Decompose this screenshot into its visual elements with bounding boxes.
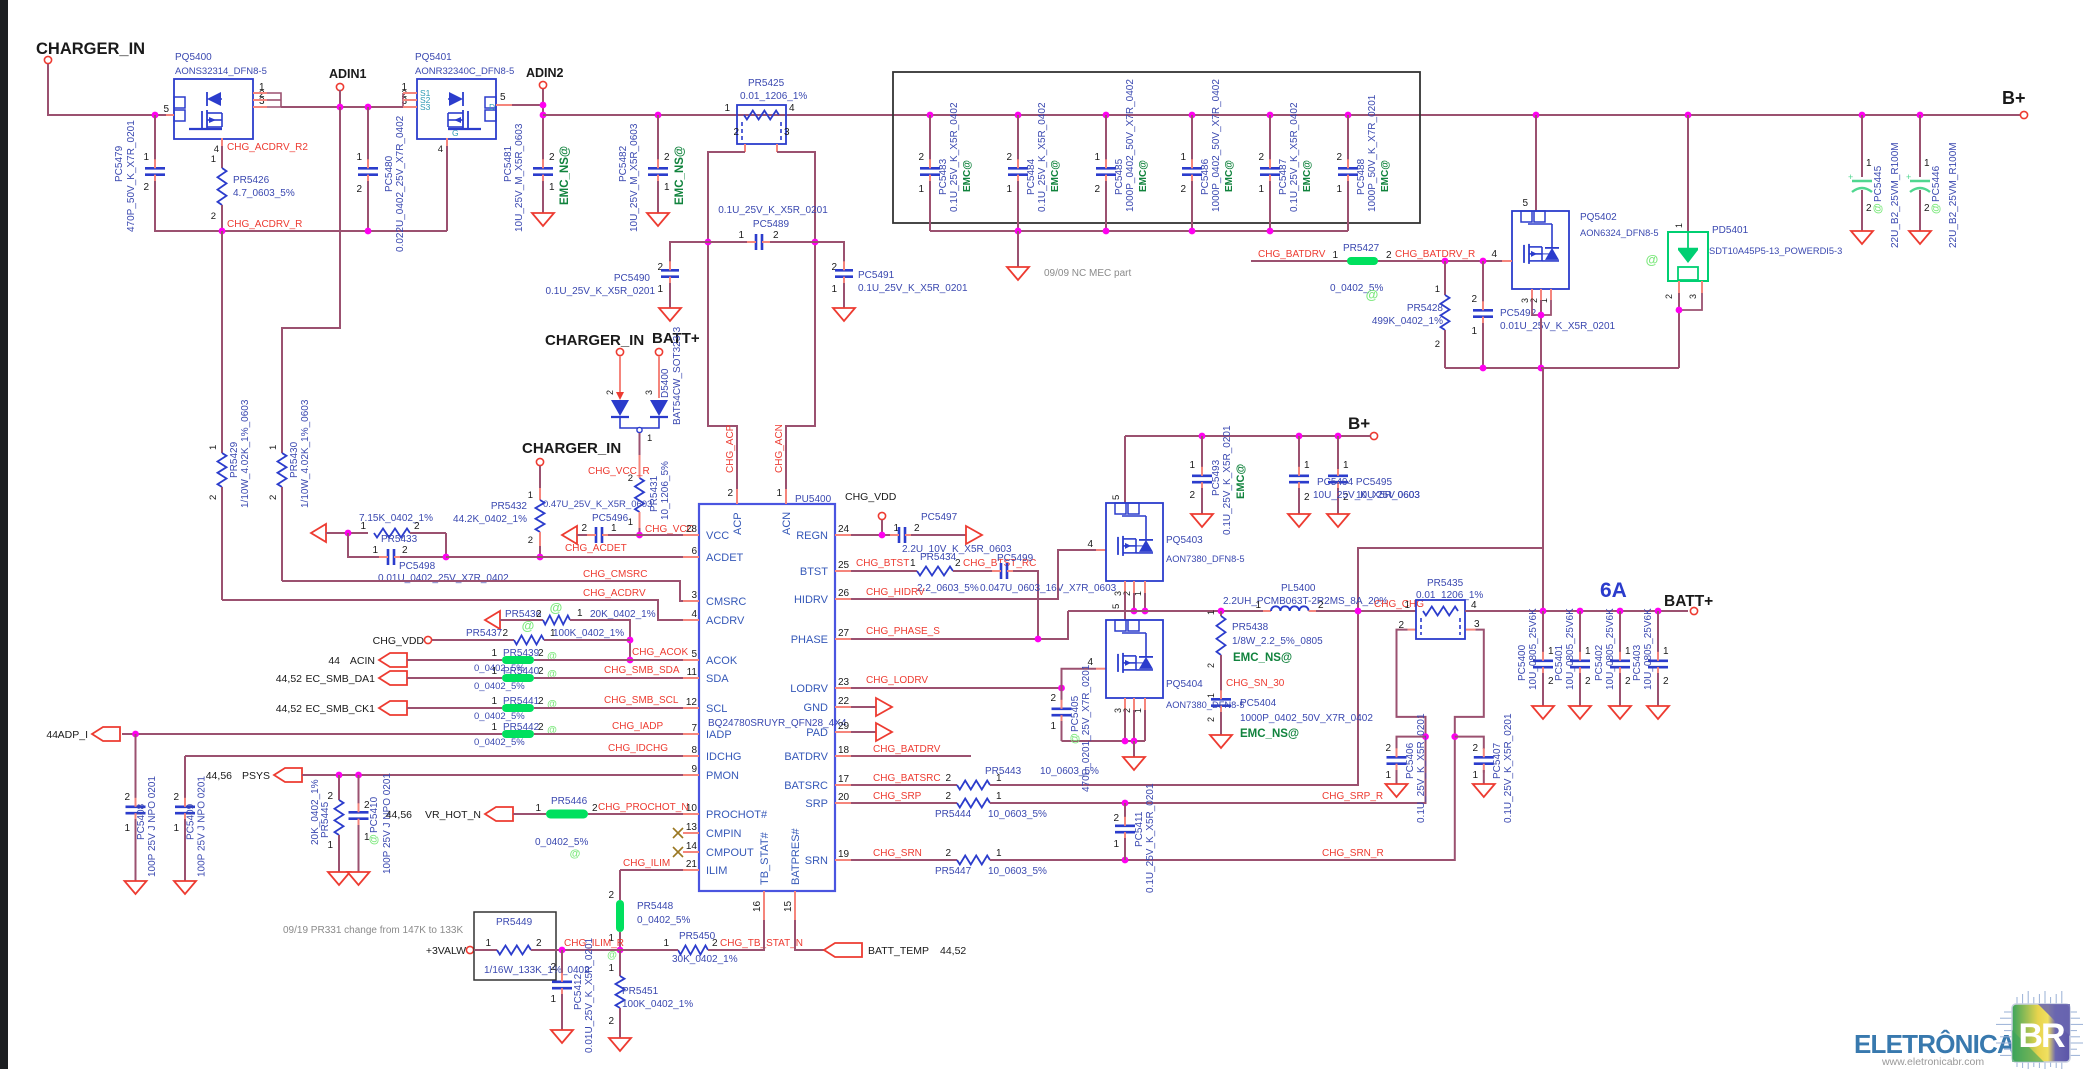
svg-text:EC_SMB_DA1: EC_SMB_DA1 (306, 673, 376, 685)
svg-text:ACP: ACP (732, 512, 744, 535)
svg-text:2: 2 (1122, 708, 1132, 713)
svg-text:1: 1 (1180, 152, 1186, 163)
svg-text:26: 26 (838, 588, 850, 599)
svg-text:0.01_1206_1%: 0.01_1206_1% (740, 91, 807, 102)
svg-text:2: 2 (549, 152, 555, 163)
svg-text:CHG_BATDRV: CHG_BATDRV (1258, 249, 1326, 260)
svg-text:1: 1 (1206, 610, 1216, 615)
svg-text:1: 1 (1206, 693, 1216, 698)
svg-text:44: 44 (328, 655, 340, 667)
svg-text:3: 3 (644, 390, 654, 395)
svg-text:PAD: PAD (806, 727, 828, 739)
svg-text:2: 2 (1398, 620, 1404, 631)
capacitor PC5495 with ground (1335, 433, 1342, 440)
svg-text:PR5425: PR5425 (748, 78, 785, 89)
svg-text:PC5404: PC5404 (1240, 698, 1277, 709)
svg-text:CHG_SRN_R: CHG_SRN_R (1322, 848, 1384, 859)
svg-text:2: 2 (955, 558, 961, 569)
svg-text:1: 1 (372, 545, 378, 556)
svg-text:24: 24 (838, 524, 850, 535)
svg-text:CHG_BATDRV_R: CHG_BATDRV_R (1395, 249, 1475, 260)
svg-text:1: 1 (1113, 839, 1119, 850)
svg-text:0.1U_25V_K_X5R_0201: 0.1U_25V_K_X5R_0201 (1416, 713, 1427, 823)
svg-text:PC5499: PC5499 (997, 553, 1034, 564)
svg-text:44,56: 44,56 (206, 770, 232, 782)
svg-text:ADIN2: ADIN2 (526, 66, 564, 80)
wire BATPRES# to BATT_TEMP (795, 920, 824, 950)
svg-text:30K_0402_1%: 30K_0402_1% (672, 954, 738, 965)
svg-text:BTST: BTST (800, 566, 828, 578)
wire D5400 common to PR5431 (639, 433, 641, 455)
svg-text:100P 25V J NPO 0201: 100P 25V J NPO 0201 (197, 776, 208, 877)
svg-text:2: 2 (550, 962, 556, 973)
svg-text:2: 2 (605, 390, 615, 395)
svg-text:PC5498: PC5498 (399, 561, 436, 572)
svg-text:PC5481: PC5481 (503, 145, 514, 182)
svg-text:1: 1 (663, 938, 669, 949)
svg-text:PR5428: PR5428 (1407, 303, 1444, 314)
svg-text:PC5482: PC5482 (618, 145, 629, 182)
svg-text:PC5485: PC5485 (1114, 158, 1125, 195)
diode D5400 BAT54CW dual (619, 356, 621, 398)
resistor PR5432 44.2K (539, 466, 541, 488)
svg-text:1000P_0402_50V_X7R_0402: 1000P_0402_50V_X7R_0402 (1211, 79, 1222, 212)
svg-text:11: 11 (687, 667, 698, 678)
svg-text:2: 2 (538, 666, 544, 677)
svg-text:EMC@: EMC@ (1380, 160, 1391, 192)
svg-text:1: 1 (1625, 646, 1631, 657)
svg-text:PR5446: PR5446 (551, 796, 588, 807)
svg-text:PC5409: PC5409 (186, 803, 197, 840)
svg-text:3: 3 (259, 96, 265, 107)
svg-text:100P 25V J NPO 0201: 100P 25V J NPO 0201 (382, 773, 393, 874)
svg-text:2: 2 (945, 848, 951, 859)
pin 3 CMSRC (683, 600, 699, 602)
svg-text:20: 20 (838, 792, 850, 803)
svg-text:PR5449: PR5449 (496, 917, 533, 928)
svg-text:S3: S3 (420, 102, 431, 112)
svg-text:1000P_0402_50V_X7R_0402: 1000P_0402_50V_X7R_0402 (1240, 713, 1373, 724)
svg-text:1: 1 (724, 103, 730, 114)
svg-text:PC5400: PC5400 (1517, 644, 1528, 681)
svg-text:PR5437: PR5437 (466, 628, 503, 639)
svg-text:0_0402_5%: 0_0402_5% (474, 711, 525, 722)
junction at PC5479 top (152, 112, 159, 119)
svg-text:CHG_VCC_R: CHG_VCC_R (588, 466, 650, 477)
svg-text:1: 1 (1336, 184, 1342, 195)
wire PR5425 pin3 down (CHG_ACN) (776, 144, 778, 152)
svg-text:1: 1 (1255, 600, 1261, 611)
svg-text:CHG_CMSRC: CHG_CMSRC (583, 569, 647, 580)
svg-text:0_0402_5%: 0_0402_5% (474, 681, 525, 692)
capacitor PC5402 output (1617, 608, 1624, 615)
svg-text:2: 2 (1094, 184, 1100, 195)
svg-text:7.15K_0402_1%: 7.15K_0402_1% (359, 513, 433, 524)
wire PR5429 from CHG_ACDRV_R bus (221, 231, 223, 453)
svg-text:@: @ (570, 848, 581, 860)
svg-text:PMON: PMON (706, 770, 739, 782)
pins 1,2,3 of PQ5404 to source bus (1124, 698, 1126, 710)
svg-text:BATT_TEMP: BATT_TEMP (868, 945, 929, 957)
svg-text:0.1U_25V_K_X5R_0201: 0.1U_25V_K_X5R_0201 (545, 286, 655, 297)
svg-text:1: 1 (1674, 223, 1684, 228)
capacitor PC5400 output (1540, 608, 1547, 615)
svg-text:AONR32340C_DFN8-5: AONR32340C_DFN8-5 (415, 66, 514, 77)
svg-text:CHG_IDCHG: CHG_IDCHG (608, 743, 668, 754)
svg-text:+: + (1906, 172, 1911, 182)
svg-text:0.1U_25V_K_X5R_0201: 0.1U_25V_K_X5R_0201 (718, 205, 828, 216)
svg-text:2: 2 (208, 495, 219, 500)
svg-text:1: 1 (1385, 770, 1391, 781)
svg-text:1: 1 (910, 558, 916, 569)
svg-text:2: 2 (1189, 490, 1195, 501)
svg-text:5: 5 (691, 649, 697, 660)
svg-text:ACOK: ACOK (706, 655, 738, 667)
svg-text:2: 2 (1122, 591, 1132, 596)
svg-text:EMC@: EMC@ (1302, 160, 1313, 192)
svg-text:4: 4 (1087, 539, 1093, 550)
svg-text:29: 29 (838, 721, 850, 732)
svg-text:D: D (489, 102, 495, 112)
svg-text:ADIN1: ADIN1 (329, 67, 367, 81)
svg-text:2: 2 (608, 1016, 614, 1027)
svg-text:22U_B2_25VM_R100M: 22U_B2_25VM_R100M (1948, 142, 1959, 248)
svg-text:2: 2 (664, 152, 670, 163)
svg-text:BATDRV: BATDRV (784, 751, 828, 763)
svg-text:SDA: SDA (706, 673, 729, 685)
svg-text:@: @ (550, 600, 563, 615)
wire CHARGER_IN to PQ5400 pin5 (48, 64, 166, 115)
svg-text:2: 2 (536, 938, 542, 949)
svg-text:CHG_BATDRV: CHG_BATDRV (873, 744, 941, 755)
svg-text:@: @ (522, 618, 535, 633)
svg-text:1000P_50V_K_X7R_0201: 1000P_50V_K_X7R_0201 (1367, 94, 1378, 212)
resistor PR5436 20K (485, 611, 500, 629)
svg-text:AON6324_DFN8-5: AON6324_DFN8-5 (1580, 228, 1659, 238)
svg-text:PR5445: PR5445 (320, 801, 331, 838)
svg-text:0_0402_5%: 0_0402_5% (474, 737, 525, 748)
svg-text:2: 2 (211, 211, 216, 222)
svg-text:PQ5401: PQ5401 (415, 52, 452, 63)
svg-text:PC5403: PC5403 (1632, 644, 1643, 681)
pins 1,2,3 of PQ5403 to phase rail (1124, 581, 1126, 593)
svg-text:LODRV: LODRV (790, 683, 828, 695)
svg-text:@: @ (1069, 733, 1081, 744)
svg-text:22U_B2_25VM_R100M: 22U_B2_25VM_R100M (1890, 142, 1901, 248)
svg-text:GND: GND (804, 702, 829, 714)
svg-text:2: 2 (1625, 676, 1631, 687)
svg-text:CHG_SRP_R: CHG_SRP_R (1322, 791, 1383, 802)
svg-text:1: 1 (1866, 158, 1872, 169)
svg-text:2: 2 (914, 523, 920, 534)
svg-text:1: 1 (535, 803, 541, 814)
svg-text:PC5406: PC5406 (1405, 742, 1416, 779)
pin 19 SRN (835, 859, 851, 861)
svg-text:ACDET: ACDET (706, 552, 744, 564)
svg-text:EMC@: EMC@ (1235, 464, 1247, 499)
svg-text:ACN: ACN (781, 512, 793, 535)
svg-text:1: 1 (776, 488, 782, 499)
svg-text:2: 2 (1471, 294, 1477, 305)
svg-text:PC5407: PC5407 (1492, 742, 1503, 779)
svg-text:2: 2 (1435, 339, 1440, 350)
svg-text:4: 4 (1491, 249, 1497, 260)
svg-text:27: 27 (838, 628, 850, 639)
svg-text:PC5401: PC5401 (1554, 644, 1565, 681)
svg-text:1: 1 (485, 938, 491, 949)
svg-text:2: 2 (712, 938, 718, 949)
capacitor PC5408 on ADP_I (132, 731, 139, 738)
svg-text:2.2U_10V_K_X5R_0603: 2.2U_10V_K_X5R_0603 (902, 544, 1012, 555)
svg-text:CHG_HIDRV: CHG_HIDRV (866, 587, 925, 598)
svg-text:5: 5 (500, 92, 506, 103)
svg-text:0.1U_25V_K_X5R_0402: 0.1U_25V_K_X5R_0402 (949, 102, 960, 212)
wire CHG_CHG node (1316, 610, 1416, 612)
svg-text:2: 2 (402, 545, 408, 556)
wire PR5425 pin2 down (CHG_ACP) (744, 144, 746, 152)
svg-text:PC5486: PC5486 (1200, 158, 1211, 195)
svg-text:3: 3 (1474, 619, 1480, 630)
pin 5 ACOK (683, 659, 699, 661)
svg-text:PC5497: PC5497 (921, 512, 958, 523)
svg-text:1: 1 (608, 963, 614, 974)
svg-text:0.1U_25V_K_X5R_0201: 0.1U_25V_K_X5R_0201 (1145, 783, 1156, 893)
svg-text:2: 2 (1664, 294, 1674, 299)
svg-text:10U_25V_M_X5R_0603: 10U_25V_M_X5R_0603 (629, 123, 640, 232)
svg-text:2: 2 (1386, 250, 1392, 261)
svg-text:1: 1 (268, 445, 279, 450)
pin 24 REGN (835, 534, 851, 536)
svg-text:10U 25V 0603: 10U 25V 0603 (1356, 490, 1420, 501)
svg-text:PC5411: PC5411 (1134, 811, 1145, 847)
svg-text:SRP: SRP (805, 798, 828, 810)
svg-text:PR5429: PR5429 (229, 441, 240, 478)
svg-text:0.022U_0402_25V_X7R_0402: 0.022U_0402_25V_X7R_0402 (395, 115, 406, 252)
svg-text:12: 12 (686, 697, 698, 708)
capacitor PC5409 (184, 756, 186, 800)
svg-text:CHG_ACDRV_R2: CHG_ACDRV_R2 (227, 142, 308, 153)
svg-text:0.1U_25V_K_X5R_0201: 0.1U_25V_K_X5R_0201 (858, 283, 968, 294)
capacitor PC5482 with ground (655, 112, 662, 119)
svg-text:CMPIN: CMPIN (706, 828, 742, 840)
capacitor PC5488 (1345, 112, 1352, 119)
svg-text:BATSRC: BATSRC (784, 780, 828, 792)
svg-text:0.1U_25V_K_X5R_0201: 0.1U_25V_K_X5R_0201 (1222, 425, 1233, 535)
svg-text:1/8W_2.2_5%_0805: 1/8W_2.2_5%_0805 (1232, 636, 1323, 647)
svg-text:EMC_NS@: EMC_NS@ (1233, 652, 1292, 664)
svg-text:+: + (1848, 172, 1853, 182)
svg-text:PSYS: PSYS (242, 770, 270, 782)
pin 6 ACDET (683, 556, 699, 558)
NC MEC part box (893, 72, 1420, 223)
svg-text:1: 1 (1472, 770, 1478, 781)
svg-text:20K_0402_1%: 20K_0402_1% (590, 609, 656, 620)
svg-text:15: 15 (783, 900, 794, 912)
resistor PR5426 4.7ohm (221, 138, 223, 146)
capacitor PC5405 (1061, 688, 1063, 702)
capacitor PC5498 (348, 533, 380, 557)
svg-text:PC5410: PC5410 (369, 796, 380, 833)
capacitor PC5480 (365, 104, 372, 111)
transistor PQ5404 low side (1124, 611, 1126, 620)
svg-text:1: 1 (1924, 158, 1930, 169)
svg-text:19: 19 (838, 849, 850, 860)
resistor PR5449 133K in highlight box (474, 912, 556, 980)
svg-text:@: @ (368, 834, 380, 845)
svg-text:10U_0805_25V6K: 10U_0805_25V6K (1605, 608, 1616, 690)
svg-text:28: 28 (686, 524, 698, 535)
svg-text:2: 2 (1113, 813, 1119, 824)
svg-text:PQ5404: PQ5404 (1166, 679, 1203, 690)
svg-text:PC5483: PC5483 (938, 158, 949, 195)
svg-text:2: 2 (1180, 184, 1186, 195)
pin 17 BATSRC (835, 784, 851, 786)
svg-text:PC5488: PC5488 (1356, 158, 1367, 195)
svg-text:www.eletronicabr.com: www.eletronicabr.com (1881, 1056, 1984, 1068)
svg-text:0_0402_5%: 0_0402_5% (535, 837, 588, 848)
svg-text:2: 2 (581, 523, 587, 534)
svg-text:PQ5402: PQ5402 (1580, 212, 1617, 223)
svg-text:PC5484: PC5484 (1026, 158, 1037, 195)
svg-text:1: 1 (491, 666, 497, 677)
svg-text:PC5445: PC5445 (1873, 165, 1884, 202)
svg-text:+3VALW: +3VALW (426, 945, 466, 957)
svg-text:AON7380_DFN8-5: AON7380_DFN8-5 (1166, 554, 1245, 564)
svg-text:EMC@: EMC@ (1050, 160, 1061, 192)
svg-text:1: 1 (1435, 284, 1440, 295)
svg-text:2: 2 (1663, 676, 1669, 687)
svg-text:1: 1 (577, 608, 583, 619)
svg-text:4: 4 (438, 144, 443, 155)
svg-text:PQ5400: PQ5400 (175, 52, 212, 63)
svg-text:1: 1 (211, 154, 216, 165)
svg-text:1: 1 (491, 722, 497, 733)
pin 23 LODRV (835, 687, 851, 689)
svg-text:PR5426: PR5426 (233, 175, 270, 186)
svg-text:25: 25 (838, 560, 850, 571)
pin 10 PROCHOT# (683, 813, 699, 815)
svg-text:CHG_LODRV: CHG_LODRV (866, 675, 928, 686)
svg-text:44,52: 44,52 (940, 945, 966, 957)
port BATT_TEMP (824, 943, 862, 957)
pin 14 CMPOUT (683, 851, 699, 853)
pin 20 SRP (835, 802, 851, 804)
svg-text:B+: B+ (2002, 88, 2026, 108)
svg-text:VR_HOT_N: VR_HOT_N (425, 809, 481, 821)
svg-text:1: 1 (664, 182, 670, 193)
svg-text:1: 1 (528, 490, 533, 501)
capacitor PC5492 (1480, 258, 1487, 265)
capacitor PC5493 with ground (1199, 433, 1206, 440)
svg-text:ACDRV: ACDRV (706, 615, 745, 627)
svg-text:@: @ (1646, 252, 1659, 267)
svg-text:2: 2 (538, 696, 544, 707)
pin 12 SCL (683, 707, 699, 709)
svg-text:PR5430: PR5430 (289, 441, 300, 478)
svg-text:470P_0201_25V_X7R_0201: 470P_0201_25V_X7R_0201 (1081, 664, 1092, 792)
svg-text:470P_50V_K_X7R_0201: 470P_50V_K_X7R_0201 (126, 120, 137, 232)
pin 16 TB_STAT# bottom (763, 891, 765, 920)
svg-text:BAT54CW_SOT323-3: BAT54CW_SOT323-3 (672, 326, 683, 425)
svg-text:CHG_TB_STAT_N: CHG_TB_STAT_N (720, 938, 803, 949)
svg-text:2: 2 (528, 535, 533, 546)
svg-text:2: 2 (1206, 717, 1216, 722)
capacitor PC5497 on REGN (851, 534, 893, 536)
svg-text:SRN: SRN (805, 855, 828, 867)
pin 4 ACDRV (683, 619, 699, 621)
wire PR5430 to CHG_CMSRC (281, 487, 283, 581)
svg-text:CHG_PHASE_S: CHG_PHASE_S (866, 626, 940, 637)
svg-text:CHG_ACOK: CHG_ACOK (632, 647, 688, 658)
svg-text:22: 22 (838, 696, 850, 707)
pin 15 BATPRES# bottom (794, 891, 796, 920)
pin 9 PMON (683, 774, 699, 776)
pin 11 SDA (683, 677, 699, 679)
svg-text:1: 1 (491, 648, 497, 659)
wire ACDET row (446, 556, 683, 558)
svg-text:1/10W_4.02K_1%_0603: 1/10W_4.02K_1%_0603 (300, 399, 311, 508)
ground arrow GND pin (851, 706, 876, 708)
svg-text:2: 2 (1258, 152, 1264, 163)
pin 29 PAD (835, 731, 851, 733)
svg-text:16: 16 (752, 900, 763, 912)
svg-text:1: 1 (208, 445, 219, 450)
svg-text:2: 2 (945, 791, 951, 802)
svg-text:1: 1 (1050, 721, 1056, 732)
svg-text:10_0603_5%: 10_0603_5% (988, 809, 1047, 820)
svg-text:BATPRES#: BATPRES# (790, 827, 802, 885)
svg-text:D5400: D5400 (660, 368, 671, 398)
svg-text:EC_SMB_CK1: EC_SMB_CK1 (306, 703, 376, 715)
svg-text:1: 1 (918, 184, 924, 195)
svg-text:1: 1 (1585, 646, 1591, 657)
wire from bus down to CHG node (1541, 368, 1543, 611)
wire BATT+ output rail (1465, 610, 1688, 612)
svg-text:PC5480: PC5480 (384, 155, 395, 192)
svg-text:PR5438: PR5438 (1232, 622, 1269, 633)
svg-text:10U_0805_25V6K: 10U_0805_25V6K (1565, 608, 1576, 690)
svg-text:100K_0402_1%: 100K_0402_1% (622, 999, 693, 1010)
svg-text:CHG_VDD: CHG_VDD (373, 635, 425, 647)
pin 28 VCC (683, 534, 699, 536)
svg-text:2: 2 (773, 230, 779, 241)
svg-text:2: 2 (173, 792, 179, 803)
svg-text:2: 2 (945, 773, 951, 784)
svg-text:1: 1 (360, 521, 366, 532)
svg-text:EMC_NS@: EMC_NS@ (559, 146, 571, 205)
svg-text:44: 44 (46, 729, 58, 741)
svg-text:G: G (452, 128, 459, 138)
svg-text:CHG_ACDRV: CHG_ACDRV (583, 588, 646, 599)
svg-text:CHG_BATSRC: CHG_BATSRC (873, 773, 941, 784)
capacitor PC5410 to gnd (358, 775, 360, 806)
svg-text:PR5443: PR5443 (985, 766, 1022, 777)
svg-text:CHG_SRN: CHG_SRN (873, 848, 922, 859)
svg-text:PR5444: PR5444 (935, 809, 972, 820)
svg-text:14: 14 (686, 841, 698, 852)
capacitor PC5485 (1103, 112, 1110, 119)
wire main B+ top bus (543, 114, 2024, 116)
svg-text:1: 1 (647, 433, 652, 444)
svg-text:2: 2 (1050, 693, 1056, 704)
pin 21 ILIM (683, 869, 699, 871)
resistor PR5445 20K to gnd (338, 775, 340, 800)
resistor PR5428 499K (1442, 258, 1449, 265)
pin 7 IADP (683, 733, 699, 735)
pins 1,2,3 of PQ5402 to bus (1531, 289, 1533, 300)
svg-text:2: 2 (502, 628, 508, 639)
svg-text:100P 25V J NPO 0201: 100P 25V J NPO 0201 (147, 776, 158, 877)
